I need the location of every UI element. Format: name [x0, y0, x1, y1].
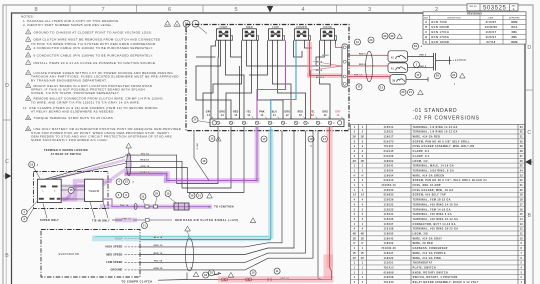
svg-text:11: 11	[143, 224, 146, 227]
circled 5 3 markers	[116, 192, 122, 198]
svg-text:20: 20	[190, 194, 194, 197]
svg-text:16: 16	[520, 209, 523, 211]
svg-text:OEM DASH AIR CLUTCH SIGNAL (+1: OEM DASH AIR CLUTCH SIGNAL (+12V)	[175, 219, 239, 222]
loom oval on wires	[366, 51, 373, 81]
svg-text:8: 8	[176, 24, 177, 26]
svg-text:29': 29'	[353, 137, 357, 139]
rotary switch box	[37, 179, 61, 202]
svg-text:19: 19	[520, 195, 523, 197]
svg-text:BLU 14: BLU 14	[154, 236, 163, 239]
zone marker arrow right	[525, 159, 531, 165]
svg-text:TORQUE TERMINAL STRIP NUTS TO: TORQUE TERMINAL STRIP NUTS TO 25 IN-LBS	[34, 116, 114, 120]
18ga wire rows from terminal strip (zigzag)	[125, 127, 218, 184]
svg-text:28: 28	[520, 151, 523, 153]
svg-text:LOOM, 1/2: LOOM, 1/2	[413, 161, 429, 163]
wire YEL 18 evaporator run	[140, 131, 306, 262]
svg-text:26: 26	[436, 75, 440, 78]
svg-text:EVAPORATOR: EVAPORATOR	[59, 252, 80, 256]
svg-text:33: 33	[520, 127, 523, 129]
svg-text:TERMINAL, 1/4 RING 14-16 GA: TERMINAL, 1/4 RING 14-16 GA	[413, 126, 458, 129]
svg-text:15: 15	[520, 214, 523, 216]
svg-text:30: 30	[390, 35, 394, 38]
svg-text:5: 5	[273, 123, 274, 125]
svg-text:RED 10: RED 10	[154, 253, 163, 255]
wire ORG 10 evaporator run	[140, 131, 282, 247]
circuit breaker CB3	[390, 75, 406, 85]
svg-text:23: 23	[520, 175, 523, 177]
svg-text:GROUND TO CHASSIS AT CLOSEST P: GROUND TO CHASSIS AT CLOSEST POINT TO AV…	[34, 30, 153, 34]
svg-text:116017: 116017	[384, 137, 394, 139]
svg-text:619035: 619035	[384, 195, 394, 197]
svg-text:C: C	[5, 159, 9, 165]
svg-text:ORG: ORG	[322, 112, 328, 114]
svg-text:ECN 0800B: ECN 0800B	[432, 26, 450, 29]
wires after breakers	[408, 55, 434, 57]
svg-text:40: 40	[391, 55, 395, 59]
svg-text:18: 18	[30, 163, 34, 166]
svg-text:15': 15'	[353, 253, 357, 255]
terminal TB1-7	[294, 121, 297, 124]
svg-text:17: 17	[416, 74, 420, 77]
svg-text:FUSE HOLDER ASSEMBLY, MIDL BOL: FUSE HOLDER ASSEMBLY, MIDL BOLT-ON	[413, 145, 475, 148]
svg-text:DCA: DCA	[511, 26, 517, 29]
zone ticks left	[3, 119, 12, 121]
svg-text:ECN 1701A: ECN 1701A	[432, 31, 450, 34]
svg-text:GROUND: GROUND	[110, 269, 122, 272]
svg-text:12: 12	[311, 115, 314, 117]
svg-text:A: A	[425, 21, 427, 24]
svg-text:115031: 115031	[384, 214, 394, 216]
terminal TB1-4	[255, 121, 258, 124]
svg-text:WIRE, #8 RED: WIRE, #8 RED	[413, 243, 434, 245]
svg-text:17: 17	[323, 138, 327, 141]
wire relay-mesh 8	[226, 40, 252, 119]
svg-text:RED: RED	[298, 112, 304, 114]
svg-text:8: 8	[308, 123, 309, 125]
svg-text:4: 4	[28, 38, 29, 41]
svg-text:5: 5	[28, 48, 29, 50]
markers above	[355, 39, 361, 45]
svg-text:ORG 18: ORG 18	[140, 166, 149, 168]
svg-text:32: 32	[204, 274, 208, 277]
svg-text:12: 12	[299, 115, 302, 117]
THERM box	[85, 179, 103, 201]
wire relay-mesh 11	[273, 40, 292, 119]
svg-text:6: 6	[168, 7, 171, 13]
wire relay-mesh 16	[330, 40, 332, 66]
fuse holder box	[174, 203, 189, 210]
svg-text:29': 29'	[353, 161, 357, 163]
svg-text:116042: 116042	[384, 237, 394, 240]
bottom clutch wire + pink band	[158, 279, 187, 282]
svg-text:701401: 701401	[384, 145, 394, 148]
svg-text:32: 32	[520, 132, 523, 134]
svg-text:27: 27	[520, 156, 523, 158]
svg-text:25: 25	[210, 272, 214, 275]
connector block at board edge	[342, 44, 348, 87]
evaporator dash-dot box	[41, 230, 140, 278]
wire relay-mesh 15	[320, 40, 331, 119]
junction connector pair	[433, 53, 435, 71]
svg-text:111051: 111051	[384, 263, 394, 265]
svg-text:PLATE, SWITCH: PLATE, SWITCH	[413, 266, 436, 269]
svg-text:E: E	[513, 7, 515, 11]
svg-text:RED 8: RED 8	[359, 53, 366, 55]
svg-text:RED 18: RED 18	[141, 160, 150, 162]
svg-text:115029: 115029	[384, 200, 394, 202]
markers 32	[193, 272, 199, 277]
svg-text:31: 31	[520, 137, 523, 139]
svg-text:11: 11	[276, 270, 279, 273]
svg-text:16: 16	[356, 41, 360, 44]
svg-text:TERMINAL, MALE, 14-16 GA: TERMINAL, MALE, 14-16 GA	[413, 165, 454, 168]
svg-text:TO COMPR CLUTCH: TO COMPR CLUTCH	[121, 281, 152, 284]
tie-in / OEM dash line	[112, 219, 122, 221]
svg-text:10: 10	[333, 123, 335, 125]
svg-text:1: 1	[221, 123, 222, 125]
svg-text:115032: 115032	[384, 204, 394, 206]
svg-text:-01 STANDARD: -01 STANDARD	[413, 108, 458, 114]
terminal TB1-1	[216, 121, 219, 124]
svg-text:RED/2: RED/2	[316, 61, 323, 63]
svg-text:RED: RED	[233, 112, 239, 114]
svg-text:18': 18'	[361, 161, 365, 163]
svg-text:30: 30	[392, 79, 396, 82]
svg-text:2: 2	[234, 123, 235, 125]
svg-text:E: E	[425, 41, 427, 44]
wire relay-mesh 4	[226, 40, 245, 119]
connectors on clutch line	[222, 278, 225, 281]
svg-text:24: 24	[369, 39, 373, 42]
svg-text:14: 14	[361, 194, 364, 197]
svg-text:PNK 18: PNK 18	[141, 172, 150, 174]
relay board dash-dot enclosure	[186, 25, 349, 131]
violet blob around switch/therm	[40, 181, 112, 199]
svg-text:119005: 119005	[384, 234, 394, 236]
revisions table	[423, 12, 526, 44]
svg-text:25: 25	[155, 192, 159, 195]
zone marker arrow left	[3, 175, 12, 177]
diagonal wires from switch to bundle	[45, 157, 125, 180]
svg-text:25: 25	[520, 166, 523, 168]
svg-text:TERMINAL, FEM 18-22 GA: TERMINAL, FEM 18-22 GA	[413, 199, 451, 202]
svg-text:-02 FR CONVERSIONS: -02 FR CONVERSIONS	[413, 115, 480, 121]
svg-text:10: 10	[520, 238, 523, 240]
svg-text:10: 10	[27, 98, 29, 100]
svg-text:D: D	[425, 36, 427, 39]
svg-text:13: 13	[166, 24, 169, 26]
terminal TB1-10	[328, 121, 331, 124]
svg-text:GRN 18: GRN 18	[196, 143, 198, 150]
svg-text:B: B	[425, 26, 427, 29]
svg-text:SCREW, #10 SELF TAP: SCREW, #10 SELF TAP	[413, 194, 446, 197]
svg-text:14: 14	[273, 114, 276, 117]
svg-text:REF NO.: REF NO.	[469, 6, 478, 8]
svg-text:13: 13	[27, 129, 29, 131]
bundle loom oval	[127, 153, 131, 176]
svg-text:WIRE, #14 GA GRAY: WIRE, #14 GA GRAY	[413, 237, 443, 240]
wires switch-therm	[61, 185, 84, 187]
wire RED 10 evaporator run	[140, 131, 294, 255]
svg-text:17: 17	[357, 86, 361, 89]
svg-text:22: 22	[520, 180, 523, 182]
svg-text:SUPER ONLY: SUPER ONLY	[40, 219, 59, 222]
svg-text:18': 18'	[361, 238, 365, 240]
wire GRN 18 evaporator run	[140, 131, 313, 270]
circled 2 3 left	[22, 209, 28, 215]
wire relay-mesh 6	[203, 40, 242, 119]
svg-text:20: 20	[401, 91, 405, 94]
RED 8 wires to breakers	[348, 54, 389, 56]
svg-text:YEL: YEL	[310, 112, 315, 114]
svg-text:113008: 113008	[384, 277, 394, 279]
svg-text:FUSE, MDL 10 AMP: FUSE, MDL 10 AMP	[413, 184, 441, 187]
svg-text:20: 20	[520, 190, 523, 192]
wire relay-mesh 5	[231, 40, 242, 57]
markers right	[413, 43, 419, 49]
svg-text:15': 15'	[361, 253, 365, 255]
svg-text:791413: 791413	[384, 266, 394, 269]
svg-text:1/30/17: 1/30/17	[486, 31, 497, 34]
svg-text:7: 7	[299, 123, 300, 125]
svg-text:THERM: THERM	[88, 189, 100, 193]
svg-text:115007: 115007	[384, 224, 394, 226]
svg-text:24: 24	[452, 74, 456, 77]
title box REF NO 503525	[467, 4, 518, 11]
svg-text:RED 8: RED 8	[359, 64, 366, 66]
svg-text:GRY: GRY	[335, 112, 341, 114]
svg-text:B: B	[527, 213, 531, 219]
svg-text:115030: 115030	[384, 219, 394, 221]
svg-text:ECN 1806D: ECN 1806D	[432, 41, 450, 44]
terminal TB1-9	[316, 121, 319, 124]
svg-text:14: 14	[261, 114, 264, 117]
markers on fuse line	[140, 194, 146, 200]
circuit breaker CB1	[388, 51, 408, 62]
svg-text:503525: 503525	[483, 5, 506, 11]
PNK 14 fuse line to ignition	[103, 199, 211, 207]
svg-text:LOW SPEED: LOW SPEED	[106, 261, 122, 264]
wire relay-mesh 10	[249, 40, 268, 75]
svg-text:PNK 14: PNK 14	[122, 217, 131, 220]
svg-text:RED/8: RED/8	[316, 70, 323, 72]
svg-text:116004: 116004	[384, 174, 394, 177]
svg-text:9': 9'	[361, 243, 363, 245]
svg-text:29: 29	[520, 146, 523, 148]
svg-text:COMPR: COMPR	[296, 25, 308, 29]
+12VDC terminal	[449, 57, 451, 65]
svg-text:619175: 619175	[384, 141, 394, 143]
strip mounting holes	[212, 121, 216, 125]
svg-text:PNK 14: PNK 14	[120, 204, 129, 207]
svg-text:18': 18'	[353, 238, 357, 240]
svg-text:12: 12	[520, 229, 523, 231]
svg-text:15: 15	[252, 272, 256, 275]
svg-text:PNK: PNK	[259, 112, 265, 114]
svg-text:701336-30: 701336-30	[381, 248, 396, 250]
svg-text:18: 18	[414, 45, 418, 48]
svg-text:ORG: ORG	[219, 112, 225, 114]
wire relay-mesh 9	[258, 40, 284, 119]
svg-text:18: 18	[520, 200, 523, 202]
svg-text:10': 10'	[353, 258, 357, 260]
svg-text:+12VDC: +12VDC	[453, 58, 468, 62]
svg-text:21: 21	[520, 185, 523, 187]
svg-text:MED SPEED: MED SPEED	[106, 253, 122, 256]
svg-text:5: 5	[234, 7, 237, 13]
svg-text:MED: MED	[246, 25, 253, 29]
switch enclosure dash-dot	[34, 172, 109, 209]
svg-text:4': 4'	[353, 174, 355, 177]
svg-text:12: 12	[27, 118, 29, 120]
loom oval evap bundle	[186, 238, 194, 271]
switch terminals	[41, 186, 47, 188]
svg-text:3: 3	[28, 32, 29, 34]
terminal TB1-3	[242, 121, 245, 124]
svg-text:PNK 14: PNK 14	[354, 74, 363, 77]
pink highlight: vertical from strip + bottom band	[327, 127, 333, 268]
terminal TB1-6	[281, 121, 284, 124]
circled 17 left of strip	[192, 117, 198, 123]
svg-text:14: 14	[234, 114, 237, 117]
svg-text:29: 29	[383, 35, 387, 38]
svg-text:115021: 115021	[384, 132, 394, 134]
svg-text:14: 14	[309, 138, 313, 141]
wire relay-mesh 2	[217, 40, 220, 119]
svg-text:HIGH: HIGH	[220, 25, 228, 29]
red core wire of clutch riser	[330, 127, 332, 280]
svg-text:CLAMP, 3/4: CLAMP, 3/4	[413, 150, 430, 153]
svg-text:6: 6	[286, 123, 287, 125]
svg-text:HIGH SPEED: HIGH SPEED	[105, 246, 122, 249]
svg-text:4/26/17: 4/26/17	[486, 36, 497, 39]
svg-text:12: 12	[324, 115, 327, 117]
svg-text:DEM: DEM	[511, 21, 517, 24]
svg-text:12: 12	[286, 115, 289, 117]
svg-text:C: C	[425, 31, 427, 34]
cyan highlighted BLU wire + band	[92, 236, 271, 242]
svg-text:7: 7	[101, 7, 104, 13]
svg-text:WIRE, #14 GA GREEN: WIRE, #14 GA GREEN	[413, 174, 445, 177]
svg-text:TERMINAL, #10 RING 10-12 GA: TERMINAL, #10 RING 10-12 GA	[413, 218, 459, 221]
svg-text:14: 14	[207, 114, 210, 117]
zone marker arrow top	[267, 6, 273, 12]
svg-text:YEL: YEL	[246, 112, 251, 114]
svg-text:2: 2	[454, 83, 455, 85]
svg-text:AT REAR OF SWITCH: AT REAR OF SWITCH	[51, 153, 82, 156]
svg-text:CONNECTOR, BUTT 14-16 GA: CONNECTOR, BUTT 14-16 GA	[413, 223, 456, 226]
svg-text:SCREW, PAN HD #8 X 1/2", SELF: SCREW, PAN HD #8 X 1/2", SELF DRILL BLAC…	[413, 179, 488, 182]
red wire RED/0	[336, 44, 343, 48]
svg-text:ORG: ORG	[284, 112, 290, 114]
svg-text:21: 21	[198, 194, 202, 197]
svg-text:SCREW, PAN HD #8 X 5/8" SELF D: SCREW, PAN HD #8 X 5/8" SELF DRILL	[413, 140, 471, 143]
svg-text:RED/1A: RED/1A	[316, 76, 325, 79]
svg-text:TO IGNITION: TO IGNITION	[214, 206, 234, 209]
svg-text:116022: 116022	[384, 258, 394, 260]
svg-text:14: 14	[247, 114, 250, 117]
svg-text:YEL 18: YEL 18	[154, 261, 163, 263]
svg-text:115041: 115041	[384, 165, 394, 168]
svg-text:D: D	[527, 45, 531, 51]
svg-text:REVISIONS: REVISIONS	[467, 13, 482, 16]
svg-text:40: 40	[391, 67, 395, 71]
svg-text:116002: 116002	[384, 243, 394, 245]
svg-text:11: 11	[520, 234, 523, 236]
svg-text:ECN 7008: ECN 7008	[432, 21, 448, 24]
svg-text:SIZED SUFFICIENTLY FOR ADDED A: SIZED SUFFICIENTLY FOR ADDED A/C LOAD.	[31, 138, 108, 142]
markers below strip	[209, 136, 215, 142]
zone ticks right	[525, 89, 533, 91]
svg-text:GRY 14: GRY 14	[280, 277, 289, 280]
wire relay-mesh 14	[305, 40, 313, 48]
svg-text:115108: 115108	[384, 229, 394, 231]
svg-text:14: 14	[520, 218, 523, 221]
svg-text:DRL: DRL	[512, 36, 518, 39]
svg-text:INSTALL ITEMS 20 & 21 AS CLOSE: INSTALL ITEMS 20 & 21 AS CLOSE AS POSSIB…	[34, 61, 157, 65]
svg-text:GRN: GRN	[206, 112, 212, 114]
svg-text:14: 14	[221, 114, 224, 117]
svg-text:TO WIRE, AND CRIMP T/A P/N 115: TO WIRE, AND CRIMP T/A P/N 115031 TO T/A…	[31, 100, 140, 104]
svg-text:611026: 611026	[384, 156, 394, 158]
svg-text:14: 14	[353, 194, 356, 197]
svg-text:24: 24	[520, 169, 523, 172]
svg-text:KNOB, ROTARY SWITCH: KNOB, ROTARY SWITCH	[413, 271, 448, 274]
svg-text:30: 30	[520, 141, 523, 143]
terminal TB1-2	[229, 121, 232, 124]
svg-text:48': 48'	[353, 233, 357, 236]
svg-text:TIE-IN ONLY: TIE-IN ONLY	[92, 219, 110, 222]
svg-text:SWITCH, ROTARY, 4 POSITION: SWITCH, ROTARY, 4 POSITION	[413, 276, 458, 279]
cyan wire (BLU) in board	[271, 40, 296, 126]
svg-text:619008: 619008	[384, 272, 394, 274]
svg-text:LOW: LOW	[272, 25, 279, 29]
svg-text:17: 17	[262, 138, 266, 141]
svg-text:119002: 119002	[384, 161, 394, 163]
svg-text:TERMINAL, 5/16 RING, 8 GA: TERMINAL, 5/16 RING, 8 GA	[413, 169, 455, 172]
svg-text:10/30/08: 10/30/08	[485, 26, 498, 29]
svg-text:4/16/07: 4/16/07	[486, 21, 497, 24]
svg-text:6/7/18: 6/7/18	[486, 41, 495, 44]
svg-text:10': 10'	[361, 258, 365, 260]
svg-text:TERMINAL, 1/4 RING 10-12 GA: TERMINAL, 1/4 RING 10-12 GA	[413, 131, 458, 134]
svg-text:YEL 18: YEL 18	[141, 153, 150, 155]
svg-text:26: 26	[520, 161, 523, 163]
svg-text:6: 6	[28, 55, 29, 57]
svg-text:115004: 115004	[384, 169, 394, 172]
svg-text:3: 3	[247, 123, 248, 125]
svg-text:13: 13	[380, 86, 384, 89]
wire relay-mesh 20	[239, 66, 241, 119]
svg-text:TERMINAL, #10 RING 6 GA: TERMINAL, #10 RING 6 GA	[413, 213, 452, 216]
svg-text:TERMINAL, #10 RING 18-22 GA: TERMINAL, #10 RING 18-22 GA	[413, 228, 459, 231]
svg-text:6 CONDUCTOR CABLE (P/N 118048): 6 CONDUCTOR CABLE (P/N 118048) TO BE PUR…	[34, 53, 154, 57]
terminal TB1-5	[268, 121, 271, 124]
svg-text:ECN 1706A: ECN 1706A	[432, 36, 450, 39]
svg-text:3: 3	[368, 7, 371, 13]
svg-text:WIRE, #14 GA PINK: WIRE, #14 GA PINK	[413, 257, 442, 260]
svg-text:4': 4'	[361, 174, 363, 177]
wire relay-mesh 13	[294, 40, 303, 57]
wire relay-mesh 18	[335, 40, 337, 44]
svg-text:18': 18'	[361, 137, 365, 139]
svg-text:21: 21	[409, 91, 413, 94]
svg-text:9: 9	[321, 123, 322, 125]
svg-text:611045: 611045	[384, 150, 394, 153]
circled 4 22 markers	[116, 179, 122, 185]
svg-text:TERMINALS SHOWN LOOKING: TERMINALS SHOWN LOOKING	[44, 149, 88, 152]
wire relay-mesh 19	[196, 56, 216, 58]
